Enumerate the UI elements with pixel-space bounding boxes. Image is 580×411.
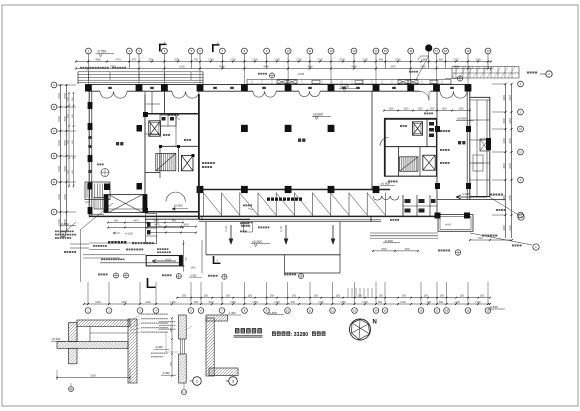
left side entry stair (85, 182, 110, 200)
left side lower steps (64, 243, 136, 253)
left canopy lines (78, 67, 203, 85)
svg-text:2150: 2150 (170, 301, 176, 304)
svg-text:2250: 2250 (170, 361, 172, 367)
svg-text:14: 14 (375, 49, 378, 53)
left wall (88, 91, 93, 217)
terrace step notes (240, 223, 269, 233)
right core bottom rooms (403, 195, 437, 216)
svg-text:990: 990 (427, 301, 432, 304)
right core level label (380, 182, 395, 186)
svg-text:±0.000: ±0.000 (313, 113, 323, 117)
svg-text:-0.450: -0.450 (384, 239, 393, 243)
notes below bottom wall (241, 219, 399, 227)
svg-text:2200: 2200 (230, 58, 236, 61)
svg-text:1000: 1000 (145, 301, 151, 304)
svg-text:940: 940 (379, 58, 384, 61)
svg-text:18: 18 (444, 49, 447, 53)
svg-text:945: 945 (114, 220, 119, 223)
svg-text:20: 20 (487, 309, 490, 313)
right wing fixtures (473, 139, 489, 171)
section flag bottom 1 (147, 278, 156, 288)
svg-text:16: 16 (420, 309, 423, 313)
garage side stair (85, 198, 106, 210)
svg-text:7140: 7140 (477, 237, 483, 240)
svg-text:2250: 2250 (339, 58, 345, 61)
lobby shop label (298, 139, 305, 142)
svg-text:1400: 1400 (454, 301, 460, 304)
svg-text:11: 11 (309, 49, 312, 53)
svg-text:900: 900 (439, 58, 444, 61)
left dimension lines (58, 84, 68, 232)
svg-text:4470: 4470 (154, 224, 160, 227)
svg-text:H: H (548, 72, 550, 76)
detail 2 top slab (206, 315, 228, 321)
right core stair (400, 157, 419, 172)
svg-text:K: K (520, 82, 522, 86)
building bottom wall (89, 214, 437, 216)
terrace slope arrows (229, 225, 334, 244)
entrance canopy band (247, 80, 451, 85)
svg-text:14: 14 (375, 309, 378, 313)
top wall door scallops (100, 91, 467, 98)
svg-text:19: 19 (467, 49, 470, 53)
svg-text:2530: 2530 (395, 58, 401, 61)
svg-text:D: D (53, 154, 55, 158)
detail 2 bottom axis circle (182, 383, 187, 395)
svg-text:11: 11 (309, 309, 312, 313)
svg-text:350: 350 (480, 295, 485, 298)
lobby level label (312, 113, 331, 120)
ramp leader to bubble upper (488, 196, 524, 220)
svg-text:900: 900 (291, 301, 296, 304)
svg-text:350: 350 (460, 295, 465, 298)
terrace level (251, 240, 270, 247)
svg-text:1350: 1350 (252, 301, 258, 304)
svg-text:1300: 1300 (170, 327, 172, 333)
svg-text:: 33280: : 33280 (291, 332, 309, 338)
left core upper elevator (149, 121, 161, 136)
parking bottom steps (199, 220, 381, 222)
detail 1 right column (128, 319, 137, 383)
svg-text:1500: 1500 (153, 220, 159, 223)
svg-text:-0.750: -0.750 (97, 50, 107, 54)
terrace slope labels (226, 226, 283, 232)
left core lower elevator (182, 156, 194, 171)
detail 2 dim line (170, 317, 173, 377)
svg-text:1350: 1350 (274, 301, 280, 304)
left porch dim lines (67, 92, 74, 188)
ramp retaining lines (370, 233, 438, 238)
left shop top annotation (168, 114, 180, 121)
svg-text:15: 15 (384, 49, 387, 53)
detail 2 left wall upper (179, 315, 187, 339)
svg-text:5100: 5100 (179, 65, 185, 68)
left angled bubble (60, 222, 76, 237)
svg-text:5100: 5100 (58, 166, 61, 172)
detail 2 bottom slab (209, 368, 238, 376)
detail 2 level label (161, 371, 176, 375)
garage slope label (113, 231, 133, 235)
svg-text:350: 350 (314, 295, 319, 298)
svg-text:2100: 2100 (317, 58, 323, 61)
top wall window mullions (108, 87, 454, 89)
svg-text:2250: 2250 (509, 195, 512, 201)
svg-text:13: 13 (353, 49, 356, 53)
left core level arrow (172, 204, 188, 211)
right core extra notes (424, 113, 450, 164)
svg-text:1=1%: 1=1% (226, 226, 228, 232)
detail 2 index circle (226, 377, 238, 386)
svg-text:1350: 1350 (340, 301, 346, 304)
drawing title (234, 328, 263, 338)
svg-text:350: 350 (379, 295, 384, 298)
svg-text:3000: 3000 (381, 248, 387, 251)
svg-text:2000: 2000 (475, 58, 481, 61)
svg-text:900: 900 (172, 220, 177, 223)
svg-text:350: 350 (248, 295, 253, 298)
svg-text:3470: 3470 (390, 65, 396, 68)
svg-text:1300: 1300 (208, 301, 214, 304)
right shop west wall (436, 91, 438, 216)
svg-text:1400: 1400 (318, 301, 324, 304)
svg-text:10: 10 (286, 309, 289, 313)
svg-text:560: 560 (378, 301, 383, 304)
svg-text:1000: 1000 (429, 109, 435, 111)
right shop label (458, 141, 465, 144)
bottom grid bubbles (85, 308, 491, 314)
svg-text:A: A (53, 83, 55, 87)
svg-text:-0.450: -0.450 (155, 345, 163, 349)
section flag 2 top (212, 41, 219, 52)
svg-text:1600: 1600 (403, 109, 409, 111)
svg-text:12: 12 (331, 309, 334, 313)
svg-text:350: 350 (424, 295, 429, 298)
ramp axis circle (438, 250, 461, 256)
svg-text:5400: 5400 (64, 194, 67, 200)
ramp corridor arrow (437, 192, 505, 200)
svg-text:13: 13 (353, 309, 356, 313)
svg-text:B: B (53, 105, 55, 109)
svg-text:i=1/8: i=1/8 (165, 258, 171, 261)
svg-text:560: 560 (439, 301, 444, 304)
svg-text:350: 350 (358, 295, 363, 298)
svg-text:750: 750 (194, 58, 199, 61)
left core stair (156, 153, 176, 170)
svg-text:2200: 2200 (362, 58, 368, 61)
svg-text:4775: 4775 (115, 58, 121, 61)
svg-text:3300: 3300 (503, 95, 506, 101)
svg-text:350: 350 (204, 295, 209, 298)
svg-text:i=1/15: i=1/15 (125, 231, 133, 235)
svg-text:15: 15 (384, 309, 387, 313)
right shop level (456, 117, 473, 121)
svg-text:N: N (373, 320, 377, 326)
detail 1 left wall upper (69, 323, 78, 342)
detail 1 floor slab (57, 342, 128, 349)
svg-text:-0.450: -0.450 (190, 274, 197, 277)
bottom sub dimension line (176, 297, 491, 299)
right core lower elevator (423, 155, 435, 170)
ramp dims (372, 248, 419, 252)
svg-text:17: 17 (436, 309, 439, 313)
detail 1 left wall lower (69, 348, 78, 364)
svg-text:2250: 2250 (509, 225, 512, 231)
ramp level label (383, 239, 400, 243)
svg-text:1950: 1950 (121, 301, 127, 304)
right grid bubbles (518, 81, 524, 218)
garage leader circles (98, 273, 227, 279)
left shop interior columns (137, 125, 143, 190)
svg-text:i=1/35: i=1/35 (462, 192, 470, 196)
lobby right wall (371, 91, 373, 189)
svg-text:2150: 2150 (296, 58, 302, 61)
svg-text:4450: 4450 (351, 65, 357, 68)
svg-text:-0.450: -0.450 (489, 305, 498, 309)
garage lower ramp (146, 240, 202, 277)
detail 1 top beam (77, 320, 130, 326)
svg-text:-0.450: -0.450 (268, 311, 277, 315)
terrace leader circles (284, 273, 304, 278)
svg-text:K: K (535, 245, 537, 249)
parking label (267, 198, 302, 201)
svg-text:3300: 3300 (503, 118, 506, 124)
detail 1 level labels (51, 337, 169, 357)
svg-text:2250: 2250 (208, 58, 214, 61)
toilets bottom left of core (146, 214, 157, 244)
svg-text:-1.300: -1.300 (228, 311, 236, 315)
north arrow (350, 319, 377, 340)
garage ramp box (104, 195, 147, 213)
svg-text:-0.450: -0.450 (60, 222, 69, 226)
svg-text:2250: 2250 (509, 138, 512, 144)
svg-text:1500: 1500 (95, 301, 101, 304)
parking top wall (197, 186, 390, 193)
svg-text:350: 350 (336, 295, 341, 298)
top grid stems into plan (88, 69, 468, 85)
detail 1 leader texts (130, 314, 168, 334)
svg-text:16: 16 (409, 49, 412, 53)
right core wc fixtures (400, 122, 434, 137)
top dimension numbers (95, 58, 481, 68)
top wall columns (85, 84, 471, 91)
svg-text:1500: 1500 (388, 109, 394, 111)
svg-text:350: 350 (440, 295, 445, 298)
svg-text:5100: 5100 (58, 116, 61, 122)
svg-text:17: 17 (435, 49, 438, 53)
svg-text:C: C (53, 129, 55, 133)
lobby columns (241, 125, 334, 132)
small door arc right of lobby (420, 91, 429, 100)
left grid bubbles (51, 82, 76, 215)
bottom level -0.450 (267, 311, 284, 315)
svg-text:350: 350 (182, 295, 187, 298)
svg-text:20: 20 (487, 49, 490, 53)
right core top dims (383, 109, 471, 112)
svg-text:19: 19 (467, 309, 470, 313)
right ramp box (435, 213, 474, 232)
corridor below core (145, 216, 250, 219)
svg-text:±0.000: ±0.000 (52, 337, 61, 341)
left core door arcs (166, 192, 185, 202)
svg-text:4400: 4400 (263, 65, 269, 68)
svg-text:600: 600 (194, 301, 199, 304)
right core annotations (388, 130, 450, 182)
right shop east wall (435, 91, 471, 200)
level label -0.750 (96, 50, 115, 57)
garage apron lines (83, 249, 183, 263)
svg-text:i=1/8: i=1/8 (85, 202, 91, 204)
svg-text:1300: 1300 (362, 301, 368, 304)
svg-text:-0.450: -0.450 (162, 371, 170, 375)
top dimension line lower (75, 68, 492, 70)
right wing outline (470, 97, 491, 197)
right core upper elevator (413, 122, 423, 135)
ramp leader to bubble lower (470, 233, 539, 250)
svg-text:4500: 4500 (219, 65, 225, 68)
svg-text:2550: 2550 (174, 58, 180, 61)
svg-text:3630: 3630 (183, 224, 189, 227)
svg-text:350: 350 (226, 295, 231, 298)
left shop core partition walls (145, 91, 164, 114)
top grid bubbles row (86, 48, 491, 68)
canopy level labels (297, 56, 429, 91)
svg-text:2250: 2250 (509, 95, 512, 101)
svg-text:P: P (520, 178, 522, 182)
svg-text:5100: 5100 (58, 140, 61, 146)
svg-text:-0.450: -0.450 (297, 73, 305, 76)
svg-text:1=1%: 1=1% (281, 226, 283, 232)
svg-text:3300: 3300 (90, 375, 96, 378)
garage entry label (108, 241, 154, 244)
right core door arcs (373, 138, 399, 201)
svg-text:2200: 2200 (400, 301, 406, 304)
parking small note (243, 205, 253, 211)
detail 2 left wall lower (179, 354, 187, 383)
parking stalls hatch (203, 193, 385, 216)
detail 1 index circle (190, 377, 202, 386)
svg-text:5100: 5100 (58, 194, 61, 200)
detail 1 bottom dim (56, 368, 131, 383)
svg-text:2250: 2250 (509, 118, 512, 124)
left core walls (143, 91, 199, 219)
entrance vestibule lines (244, 222, 253, 232)
left shop label (116, 142, 123, 145)
left core small labels (163, 134, 215, 168)
svg-text:2200: 2200 (252, 58, 258, 61)
left core upper rooms (145, 115, 195, 157)
right canopy (452, 67, 519, 79)
svg-text:1500: 1500 (190, 267, 196, 269)
svg-text:1380: 1380 (230, 301, 236, 304)
svg-text:±0.000: ±0.000 (457, 117, 467, 121)
svg-text:350: 350 (402, 295, 407, 298)
svg-text:4500: 4500 (453, 65, 459, 68)
top right leader bubbles (445, 71, 552, 81)
svg-text:i=1/8: i=1/8 (445, 223, 451, 226)
svg-text:12: 12 (330, 49, 333, 53)
left drain circle (97, 164, 109, 177)
svg-text:E: E (53, 180, 55, 184)
right dimension lines (492, 83, 513, 238)
svg-text:1900: 1900 (458, 109, 464, 111)
top wall outer line (88, 84, 470, 86)
detail 2 top level (227, 311, 241, 315)
svg-text:10: 10 (287, 49, 290, 53)
svg-text:1500: 1500 (417, 109, 423, 111)
detail 1 parapet lines (77, 326, 128, 341)
svg-text:±0.000: ±0.000 (252, 240, 262, 244)
svg-text:1500: 1500 (404, 248, 410, 251)
svg-text:2150: 2150 (475, 301, 481, 304)
svg-text:2250: 2250 (509, 163, 512, 169)
svg-text:350: 350 (270, 295, 275, 298)
svg-text:2150: 2150 (274, 58, 280, 61)
svg-text:350: 350 (292, 295, 297, 298)
svg-text:N: N (520, 150, 522, 154)
svg-text:±0.000: ±0.000 (174, 204, 183, 208)
top filled section bubble (418, 45, 432, 69)
top dimension line upper (75, 61, 492, 63)
detail 2 mid leaders (159, 321, 192, 352)
detail 2 window gap (181, 339, 185, 354)
area text (272, 331, 325, 338)
detail 2 right column (206, 318, 214, 376)
section flag bottom 2 (213, 256, 221, 264)
canopy axis circle (258, 73, 275, 78)
svg-text:3300: 3300 (503, 163, 506, 169)
svg-text:4350: 4350 (307, 65, 313, 68)
svg-text:1600: 1600 (441, 109, 447, 111)
svg-text:2250: 2250 (453, 58, 459, 61)
svg-text:5100: 5100 (58, 93, 61, 99)
bottom dimension main line (83, 303, 491, 305)
right wing bottom dims (469, 237, 513, 241)
top wall inner line (88, 90, 470, 92)
detail 1 bottom axis circle (69, 383, 74, 392)
garage dims (107, 220, 184, 229)
svg-text:3300: 3300 (503, 225, 506, 231)
bottom right level -0.450 (488, 305, 505, 309)
svg-text:3300: 3300 (503, 138, 506, 144)
bottom dimension numbers (95, 295, 484, 304)
svg-text:18: 18 (445, 309, 448, 313)
svg-text:4470: 4470 (133, 220, 139, 223)
terrace outline (206, 216, 371, 273)
svg-text:2550: 2550 (148, 58, 154, 61)
section flag 1 top (159, 41, 166, 52)
right core walls (384, 119, 437, 176)
svg-text:4950: 4950 (95, 58, 101, 61)
garage left leader texts (55, 203, 113, 282)
left core bottom dims (147, 224, 197, 234)
bottom riser lines (88, 282, 488, 304)
svg-text:975: 975 (132, 58, 137, 61)
